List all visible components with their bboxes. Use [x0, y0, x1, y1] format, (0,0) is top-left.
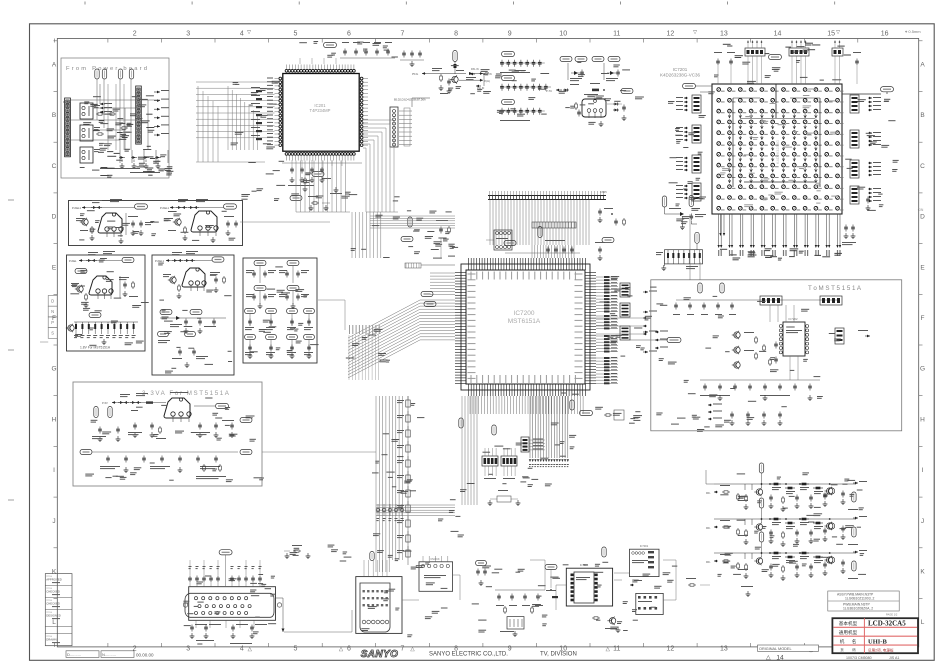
label text scatter: [516, 443, 524, 444]
svg-text:14: 14: [776, 655, 784, 662]
svg-text:8: 8: [454, 31, 458, 38]
svg-text:2: 2: [133, 31, 137, 38]
connector CN2 column: [136, 86, 142, 144]
svg-text:L: L: [921, 619, 925, 626]
svg-text:MST6151A: MST6151A: [508, 318, 541, 325]
svg-text:SANYO: SANYO: [361, 649, 399, 660]
mid bottom tp and arrows: [630, 584, 634, 586]
svg-text:MD-: MD-: [706, 492, 711, 495]
svg-text:K: K: [52, 569, 57, 576]
capacitor bank rows x500: [502, 51, 515, 56]
IC7200 right resistor-pack boxes: [620, 283, 630, 297]
label text scatter: [166, 174, 171, 175]
svg-text:I: I: [922, 467, 924, 474]
P-TU arrow and diode row: [556, 89, 562, 91]
audio row input transistor: [756, 524, 762, 530]
label text scatter: [860, 553, 864, 554]
IC7200 pins right: [585, 272, 596, 274]
svg-text:9: 9: [508, 646, 512, 653]
circuit cluster x488-541: [495, 589, 545, 591]
vertical bundle from IC7200 bottom-left to bottom: [375, 396, 377, 560]
label text scatter: [748, 255, 757, 256]
svg-text:N..........: N..........: [102, 652, 116, 657]
component ladder x408: [406, 400, 410, 407]
svg-text:K: K: [920, 569, 925, 576]
label text scatter: [617, 621, 622, 622]
svg-text:⌖ 0.5mm: ⌖ 0.5mm: [905, 29, 921, 34]
svg-text:C: C: [920, 163, 925, 170]
svg-text:B: B: [920, 112, 924, 119]
svg-text:T4P234MP: T4P234MP: [310, 108, 331, 113]
svg-text:基本机型: 基本机型: [839, 620, 858, 627]
block left arrows: [655, 331, 659, 333]
svg-text:From Power board: From Power board: [66, 66, 149, 72]
3.3VA regulator box frame: [73, 382, 262, 486]
svg-text:P-KEL: P-KEL: [69, 259, 77, 263]
label text scatter: [610, 341, 617, 342]
cluster above IC7200 center: [504, 240, 516, 245]
svg-text:12: 12: [667, 31, 675, 38]
VGA caps below: [191, 625, 193, 627]
svg-text:3: 3: [186, 646, 190, 653]
svg-text:IC7202: IC7202: [788, 317, 797, 321]
svg-text:P-KEL1: P-KEL1: [155, 259, 164, 263]
memory top components: [745, 48, 765, 56]
svg-text:J: J: [921, 518, 924, 525]
fanout from header down to IC7200 top pins: [489, 200, 491, 246]
audio row top pill: [759, 463, 763, 473]
svg-text:5: 5: [293, 31, 297, 38]
svg-text:P-KEL1: P-KEL1: [72, 206, 81, 210]
label text scatter: [290, 552, 298, 553]
svg-text:▽: ▽: [247, 30, 251, 36]
svg-text:IC7301: IC7301: [640, 544, 649, 548]
audio section ground symbol lone: [747, 591, 749, 594]
IC7200 right fanout with resistor rows: [596, 276, 604, 278]
block top rail: [676, 299, 840, 301]
ground cluster below IC201: [335, 187, 337, 190]
svg-text:K4D263238G: K4D263238G: [775, 140, 780, 164]
label text scatter: [306, 172, 312, 173]
svg-text:D: D: [52, 214, 57, 221]
resistor pack pair top: [760, 296, 782, 305]
memory BGA ball grid: [717, 88, 721, 92]
svg-text:ORIGINAL MODEL: ORIGINAL MODEL: [759, 647, 792, 651]
pills row x560: [560, 56, 572, 61]
AV connector block: [356, 577, 402, 634]
audio row input arrow: [714, 560, 718, 562]
link 3.3VA to bundle: [262, 451, 376, 453]
pins above AV connector: [370, 552, 374, 561]
label text scatter: [294, 329, 298, 330]
bottom middle interconnect wires: [544, 560, 546, 590]
svg-text:P5.6L: P5.6L: [412, 73, 419, 76]
svg-text:6: 6: [347, 646, 351, 653]
3.3VA caps and grounds row1: [99, 427, 101, 429]
memory left resistor packs: [692, 95, 701, 113]
svg-text:L: L: [52, 619, 56, 626]
op IC201 QFP body: [283, 74, 359, 152]
small connector 4sq with labels: [521, 437, 529, 452]
audio row output transistor: [827, 523, 833, 529]
label text scatter: [249, 105, 253, 106]
extra parts top right of IC201: [403, 51, 405, 53]
svg-text:3: 3: [186, 31, 190, 38]
memory IC7201 BGA outline: [712, 84, 842, 214]
audio row input arrow: [714, 526, 718, 528]
svg-text:CN05: CN05: [600, 190, 607, 194]
wire from audio rows left to To-box: [706, 483, 714, 485]
left margin D N P S boxes: [48, 296, 57, 307]
mid-left long wires from boxes to center: [240, 221, 330, 223]
From Power board block frame: [61, 58, 169, 178]
parts flanking regulator: [575, 102, 577, 104]
ASSY PWB label box: [828, 591, 899, 611]
svg-text:3.3VA For MST5151A: 3.3VA For MST5151A: [142, 390, 231, 397]
svg-text:15: 15: [827, 31, 835, 38]
svg-text:6: 6: [347, 31, 351, 38]
resistor chain left of IC201: [256, 90, 262, 92]
bus ripper hatch label above IC7200: [532, 222, 576, 228]
box3 mid cluster: [160, 309, 172, 314]
svg-text:00.00.00: 00.00.00: [136, 653, 154, 658]
memory inner routing loop: [732, 98, 734, 187]
pills near bundle: [459, 418, 463, 428]
diode-cap circuit below pills: [664, 207, 666, 214]
audio row output transistor: [827, 557, 833, 563]
svg-text:E: E: [52, 264, 57, 271]
bottom-left approval table: [45, 574, 72, 646]
svg-text:CN.DCK: CN.DCK: [430, 558, 440, 561]
label text scatter: [374, 329, 383, 330]
label text scatter: [435, 244, 442, 245]
3.3VA pills left: [94, 407, 98, 418]
wires IC7200 bottom going down mid: [529, 396, 531, 458]
IC7200 bottom fan block: [469, 396, 471, 414]
label text scatter: [796, 60, 800, 61]
3.3VA bottom rail row: [80, 449, 92, 454]
label text scatter: [518, 569, 525, 570]
label text scatter: [814, 513, 823, 514]
horizontal mid bus y216-228: [370, 215, 455, 217]
audio rows extra dark parts: [744, 484, 746, 490]
svg-text:通用机型: 通用机型: [839, 629, 858, 636]
svg-text:K4D263238G-VC36: K4D263238G-VC36: [660, 73, 701, 78]
svg-text:5: 5: [293, 646, 297, 653]
audio row mid resistors: [771, 552, 781, 554]
svg-text:D..........: D..........: [67, 652, 81, 657]
wires from IC7200 left-bottom to left bundle: [461, 396, 463, 505]
svg-text:PAGE 1/2: PAGE 1/2: [886, 612, 898, 616]
svg-text:12: 12: [667, 646, 675, 653]
audio row right pill: [852, 561, 856, 571]
VGA caps above: [189, 576, 191, 578]
label text scatter: [228, 351, 232, 352]
connector CN1 power input: [65, 98, 71, 157]
svg-text:E: E: [920, 264, 925, 271]
top-right corner of IC7200 area parts: [599, 247, 601, 249]
IC201 pin circles bottom: [285, 153, 288, 156]
memory bottom fanout wires: [718, 214, 720, 245]
label text scatter: [669, 182, 678, 183]
IC7200 pins bottom: [468, 384, 470, 396]
bottom area wire stubs below VGA: [195, 620, 197, 628]
pill above DIP: [602, 547, 606, 557]
VGA caps vertical stubs: [189, 560, 191, 568]
svg-text:D: D: [920, 214, 925, 221]
power box extra wires: [71, 119, 135, 121]
IC7200 pins left: [455, 272, 466, 274]
memory right resistor packs and arrows: [850, 95, 859, 113]
svg-text:14: 14: [774, 31, 782, 38]
audio row rail: [714, 552, 856, 554]
label text scatter: [445, 231, 450, 232]
audio row output arrow: [853, 551, 858, 553]
svg-text:P: P: [51, 320, 54, 325]
box2 frame left tall: [67, 255, 146, 351]
svg-text:P-5V: P-5V: [102, 401, 108, 405]
svg-text:10: 10: [559, 31, 567, 38]
pills left-below memory: [662, 196, 666, 207]
label text scatter: [569, 435, 576, 436]
svg-text:D: D: [51, 299, 54, 304]
TP ovals left of IC7200: [421, 291, 433, 296]
right side net arrows of IC7200: [643, 291, 648, 293]
svg-text:UHI-B: UHI-B: [868, 639, 887, 646]
resistor pack connectors center: [482, 456, 498, 466]
resistor bank box below memory: [665, 250, 703, 264]
left margin fold marks: [8, 199, 14, 201]
svg-text:DESIGNED: DESIGNED: [46, 614, 61, 618]
label text scatter: [656, 413, 662, 414]
audio row output transistor: [827, 488, 833, 494]
svg-text:4: 4: [240, 31, 244, 38]
svg-text:N: N: [51, 309, 54, 314]
wires from IC201 right pins down: [365, 148, 367, 212]
VGA DSUB trapezoid shell: [185, 593, 274, 617]
svg-text:J: J: [52, 518, 55, 525]
svg-text:SANYO ELECTRIC CO.,LTD.: SANYO ELECTRIC CO.,LTD.: [429, 652, 508, 658]
label text scatter: [114, 298, 122, 299]
wires joining bottom ICs: [614, 572, 629, 574]
label text scatter: [383, 433, 390, 434]
box3 frame middle tall: [152, 255, 234, 375]
IC201 pin circles right: [360, 77, 363, 80]
block bottom arrows left: [708, 404, 712, 406]
label text scatter: [477, 89, 482, 90]
MCU IC7200 outer ring: [461, 264, 590, 390]
bottom long rail: [284, 631, 352, 633]
label text scatter: [460, 489, 466, 490]
optocoupler IC1: [80, 103, 93, 119]
label text scatter: [777, 477, 781, 478]
pin header CN05 above IC7200: [488, 195, 606, 197]
vertical bus from IC201 down: [351, 212, 353, 258]
small IC 6pin lower right x635: [636, 593, 663, 614]
svg-text:MD-: MD-: [706, 561, 711, 564]
left arrows RXL: [470, 73, 475, 75]
resonator component with circles left of header fanout: [494, 230, 512, 250]
svg-text:▽: ▽: [693, 30, 697, 36]
caps below IC201: [291, 167, 293, 169]
label text scatter: [441, 608, 448, 609]
svg-text:1.8V For MST5151A: 1.8V For MST5151A: [80, 346, 111, 350]
memory right lower cap pair: [867, 197, 869, 199]
left vertical label set near diagonals: [349, 325, 350, 334]
label text scatter: [169, 480, 174, 481]
IC201 pin circles top: [285, 69, 288, 72]
power box interior extra parts: [96, 113, 98, 115]
wires IC7200 right to To-box: [596, 317, 643, 319]
wires inside power box: [103, 79, 105, 128]
label text scatter: [770, 103, 777, 104]
svg-text:7: 7: [401, 31, 405, 38]
label text scatter: [150, 221, 154, 222]
svg-text:13: 13: [720, 646, 728, 653]
DIP IC7304: [566, 568, 612, 606]
svg-text:C: C: [52, 163, 57, 170]
svg-text:11: 11: [613, 31, 620, 38]
svg-text:IC7201: IC7201: [673, 67, 688, 72]
svg-text:▽: ▽: [836, 30, 840, 36]
svg-text:IC7200: IC7200: [514, 310, 535, 317]
IC7200 pins top: [468, 258, 470, 270]
svg-text:13: 13: [720, 31, 728, 38]
memory bottom right cap pair: [845, 225, 847, 227]
small part upper-right outside boxes: [311, 202, 313, 204]
svg-text:7: 7: [401, 646, 405, 653]
audio row right pill: [852, 527, 856, 537]
audio row input transistor: [756, 558, 762, 564]
caps above IC201: [344, 49, 346, 51]
label text scatter: [107, 151, 113, 152]
svg-text:F: F: [921, 315, 925, 322]
audio row top pill: [759, 532, 763, 542]
label text scatter: [495, 76, 502, 77]
svg-text:RXL IN: RXL IN: [471, 68, 479, 71]
svg-text:2: 2: [133, 646, 137, 653]
opamp IC7202 DIP: [783, 322, 805, 356]
box1 frame left pair circuits: [69, 201, 243, 246]
label text scatter: [622, 69, 630, 70]
svg-text:P-TU: P-TU: [546, 89, 552, 93]
audio row output arrow: [853, 482, 858, 484]
svg-text:见第2项, 电源板: 见第2项, 电源板: [868, 647, 894, 652]
svg-text:机: 机: [840, 638, 845, 645]
components above IC7200 left: [440, 227, 442, 229]
svg-text:CHECKED: CHECKED: [46, 590, 60, 594]
box2 resistor bank row: [89, 312, 101, 317]
wire pair below grid left: [720, 214, 722, 233]
lone cap far left bottom: [293, 550, 295, 552]
svg-text:LCD-32CA5: LCD-32CA5: [868, 619, 906, 627]
audio row rail: [714, 518, 856, 520]
pills top of block: [698, 283, 702, 293]
transistors in block: [734, 332, 740, 338]
box4 frame right tall: [243, 258, 317, 363]
svg-text:G: G: [920, 366, 925, 373]
svg-text:16: 16: [881, 31, 889, 38]
label text scatter: [867, 135, 875, 136]
wires IC201 down to center: [295, 161, 297, 213]
svg-text:T o M S T 5 1 5 1 A: T o M S T 5 1 5 1 A: [808, 285, 862, 292]
svg-text:↔: ↔: [809, 649, 814, 655]
TP oval and resistor right: [580, 410, 593, 415]
bundle bend into VGA area: [375, 560, 377, 572]
label text scatter: [633, 420, 640, 421]
VGA side screw circles: [183, 603, 187, 607]
svg-text:B: B: [52, 112, 56, 119]
resistor left of DIP: [552, 596, 558, 598]
svg-text:MD-: MD-: [706, 527, 711, 530]
audio row output arrow: [853, 517, 858, 519]
jumpers top: [95, 69, 99, 79]
block mid resistors: [755, 336, 757, 338]
MCU IC7200 body: [466, 270, 585, 384]
svg-text:11: 11: [613, 646, 620, 653]
svg-text:APPROVED: APPROVED: [46, 578, 62, 582]
VGA pin circles: [194, 597, 197, 600]
svg-text:H: H: [52, 416, 57, 423]
svg-text:P-KEY: P-KEY: [63, 100, 71, 104]
transistor below DIP: [609, 618, 615, 624]
small parts below power box: [312, 171, 324, 176]
audio row mid resistors: [771, 518, 781, 520]
diode circuits below pills: [567, 63, 569, 80]
memory top pill ovals: [683, 83, 696, 88]
lone part near 503,500: [497, 496, 511, 502]
svg-text:S: S: [51, 331, 54, 336]
label text scatter: [251, 595, 259, 596]
IC201 left fanout bus: [225, 81, 275, 83]
svg-text:1007/3 CM5080: 1007/3 CM5080: [846, 656, 872, 660]
wires above IC201 to rail: [299, 58, 301, 64]
label text scatter: [735, 55, 743, 56]
svg-text:1LG3B10Z08Z0A..2: 1LG3B10Z08Z0A..2: [843, 607, 873, 611]
audio row input arrow: [714, 491, 718, 493]
bus label hatch box: [405, 263, 421, 268]
label text scatter: [104, 114, 112, 115]
svg-text:4: 4: [240, 646, 244, 653]
long vertical link memory to To-box: [689, 214, 691, 280]
svg-text:A: A: [52, 62, 57, 69]
block lower rail and caps: [700, 379, 820, 381]
IC7200 left diagonal fanout: [420, 299, 455, 301]
parts right of header: [599, 209, 601, 211]
IC7200 inner pin labels smudge: [468, 274, 476, 275]
label text scatter: [676, 204, 680, 205]
svg-text:名: 名: [852, 638, 857, 645]
svg-text:1LG0B10Z11003..2: 1LG0B10Z11003..2: [845, 596, 874, 600]
svg-text:A: A: [920, 62, 925, 69]
svg-text:TV, DIVISION: TV, DIVISION: [540, 652, 577, 658]
svg-text:I: I: [53, 467, 55, 474]
svg-text:JIS A1: JIS A1: [889, 656, 899, 660]
svg-text:B5,D2,D3,D4,D5,B6,B7,D6A: B5,D2,D3,D4,D5,B6,B7,D6A: [394, 99, 426, 102]
VGA right vertical wire: [276, 597, 284, 599]
audio row top pill: [759, 498, 763, 508]
diodes bottom row: [119, 150, 121, 163]
transistor circuit right of IC201: [453, 51, 457, 62]
svg-text:△: △: [766, 655, 771, 661]
svg-text:P(AL): P(AL): [484, 80, 490, 83]
svg-text:P-KEL1: P-KEL1: [160, 206, 169, 210]
audio row rail: [714, 483, 856, 485]
VGA top pill: [219, 550, 232, 555]
diode row on bundle: [376, 508, 380, 512]
3.3VA regulator pentagon IC7803: [164, 398, 190, 418]
caps bank grounds: [500, 72, 530, 73]
